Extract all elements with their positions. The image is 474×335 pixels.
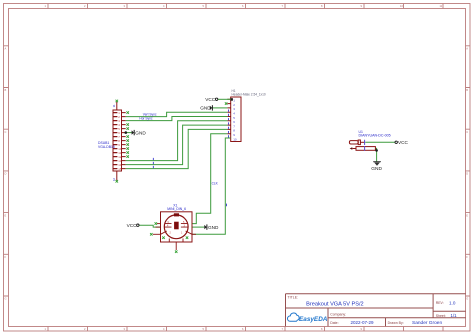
svg-text:Company:: Company:	[330, 313, 346, 317]
svg-text:VGA-DB15: VGA-DB15	[98, 145, 115, 149]
svg-text:15: 15	[118, 167, 122, 171]
svg-text:C: C	[466, 130, 468, 134]
svg-text:GND: GND	[200, 106, 211, 111]
svg-text:TITLE:: TITLE:	[288, 296, 299, 300]
svg-text:Sheet:: Sheet:	[436, 314, 446, 318]
svg-text:GND: GND	[135, 130, 146, 135]
svg-text:VCC: VCC	[398, 140, 409, 145]
svg-text:C: C	[5, 130, 7, 134]
svg-text:D: D	[5, 172, 7, 176]
svg-text:A: A	[5, 47, 7, 51]
svg-text:GND: GND	[208, 225, 219, 230]
svg-text:CLK: CLK	[212, 181, 219, 185]
svg-text:Sander Groen: Sander Groen	[412, 320, 442, 326]
svg-text:VCC: VCC	[205, 97, 216, 102]
svg-text:Date:: Date:	[330, 321, 338, 325]
svg-text:D: D	[466, 172, 468, 176]
svg-text:EasyEDA: EasyEDA	[299, 316, 328, 323]
svg-text:Hor Sync: Hor Sync	[139, 117, 153, 121]
svg-text:E: E	[466, 213, 468, 217]
svg-text:VCC: VCC	[127, 223, 138, 228]
svg-text:1/1: 1/1	[451, 313, 458, 318]
svg-text:G: G	[5, 297, 7, 301]
svg-text:Drawn By:: Drawn By:	[388, 321, 404, 325]
svg-text:REV:: REV:	[436, 301, 444, 305]
svg-text:Breakout VGA 5V PS/2: Breakout VGA 5V PS/2	[306, 301, 364, 307]
svg-text:10: 10	[233, 137, 237, 141]
svg-text:MINI_DIN_6: MINI_DIN_6	[167, 207, 186, 211]
svg-text:B: B	[466, 88, 468, 92]
svg-text:11: 11	[112, 104, 116, 107]
svg-text:1.0: 1.0	[449, 301, 456, 306]
svg-text:2022-07-29: 2022-07-29	[351, 320, 375, 325]
svg-text:E: E	[5, 213, 7, 217]
svg-text:B: B	[5, 88, 7, 92]
svg-text:G: G	[466, 297, 468, 301]
svg-text:GND: GND	[371, 166, 382, 172]
svg-text:DIANYUAN-DC-005: DIANYUAN-DC-005	[359, 134, 391, 138]
svg-text:A: A	[466, 47, 468, 51]
svg-text:Header-Male 2.54_1x10: Header-Male 2.54_1x10	[232, 93, 266, 97]
